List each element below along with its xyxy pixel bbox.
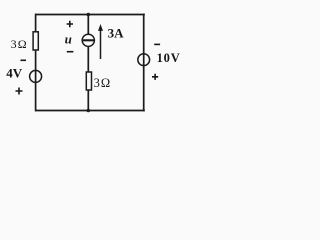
svg-text:3A: 3A [108, 25, 125, 40]
svg-text:3Ω: 3Ω [94, 76, 112, 90]
svg-text:3Ω: 3Ω [11, 37, 28, 51]
svg-text:u: u [65, 31, 72, 46]
svg-text:4V: 4V [6, 66, 23, 81]
svg-text:10V: 10V [157, 51, 181, 65]
